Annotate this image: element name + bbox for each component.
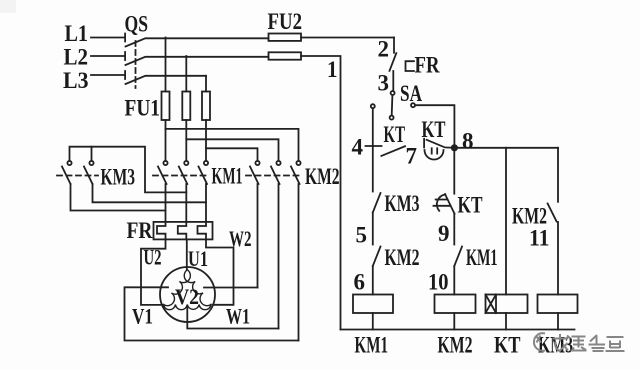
svg-text:L1: L1 xyxy=(65,21,89,46)
svg-text:10: 10 xyxy=(428,270,449,295)
svg-text:KT: KT xyxy=(422,117,446,142)
svg-text:KT: KT xyxy=(384,122,406,147)
svg-text:11: 11 xyxy=(529,226,550,251)
svg-text:KM1: KM1 xyxy=(212,164,243,189)
svg-text:KM2: KM2 xyxy=(305,164,340,189)
svg-text:U2: U2 xyxy=(144,245,162,270)
svg-text:KT: KT xyxy=(458,193,483,218)
svg-text:W1: W1 xyxy=(226,304,250,329)
svg-text:3: 3 xyxy=(378,71,390,96)
svg-text:6: 6 xyxy=(354,270,366,295)
svg-text:L2: L2 xyxy=(64,45,89,70)
svg-text:W2: W2 xyxy=(229,226,252,251)
svg-text:FR: FR xyxy=(127,218,153,243)
svg-text:9: 9 xyxy=(438,221,450,246)
svg-text:U1: U1 xyxy=(188,246,208,271)
svg-text:V2: V2 xyxy=(175,284,199,309)
svg-text:5: 5 xyxy=(356,223,368,248)
svg-text:SA: SA xyxy=(400,81,422,106)
svg-text:KM2: KM2 xyxy=(512,204,547,229)
svg-text:KT: KT xyxy=(494,333,521,358)
svg-text:KM3: KM3 xyxy=(385,191,420,216)
svg-text:FU1: FU1 xyxy=(125,96,161,121)
svg-text:2: 2 xyxy=(378,37,390,62)
svg-text:KM3: KM3 xyxy=(101,165,136,190)
svg-text:KM1: KM1 xyxy=(466,245,498,270)
svg-text:QS: QS xyxy=(125,12,149,37)
svg-text:7: 7 xyxy=(406,144,418,169)
svg-text:4: 4 xyxy=(352,135,364,160)
svg-text:KM2: KM2 xyxy=(385,245,420,270)
svg-text:8: 8 xyxy=(462,129,474,154)
svg-text:V1: V1 xyxy=(132,304,153,329)
svg-text:FU2: FU2 xyxy=(268,9,303,34)
svg-text:FR: FR xyxy=(415,53,440,78)
svg-text:KM1: KM1 xyxy=(355,333,389,358)
svg-text:L3: L3 xyxy=(63,68,89,93)
svg-text:KM2: KM2 xyxy=(438,333,473,358)
svg-text:1: 1 xyxy=(327,57,338,82)
